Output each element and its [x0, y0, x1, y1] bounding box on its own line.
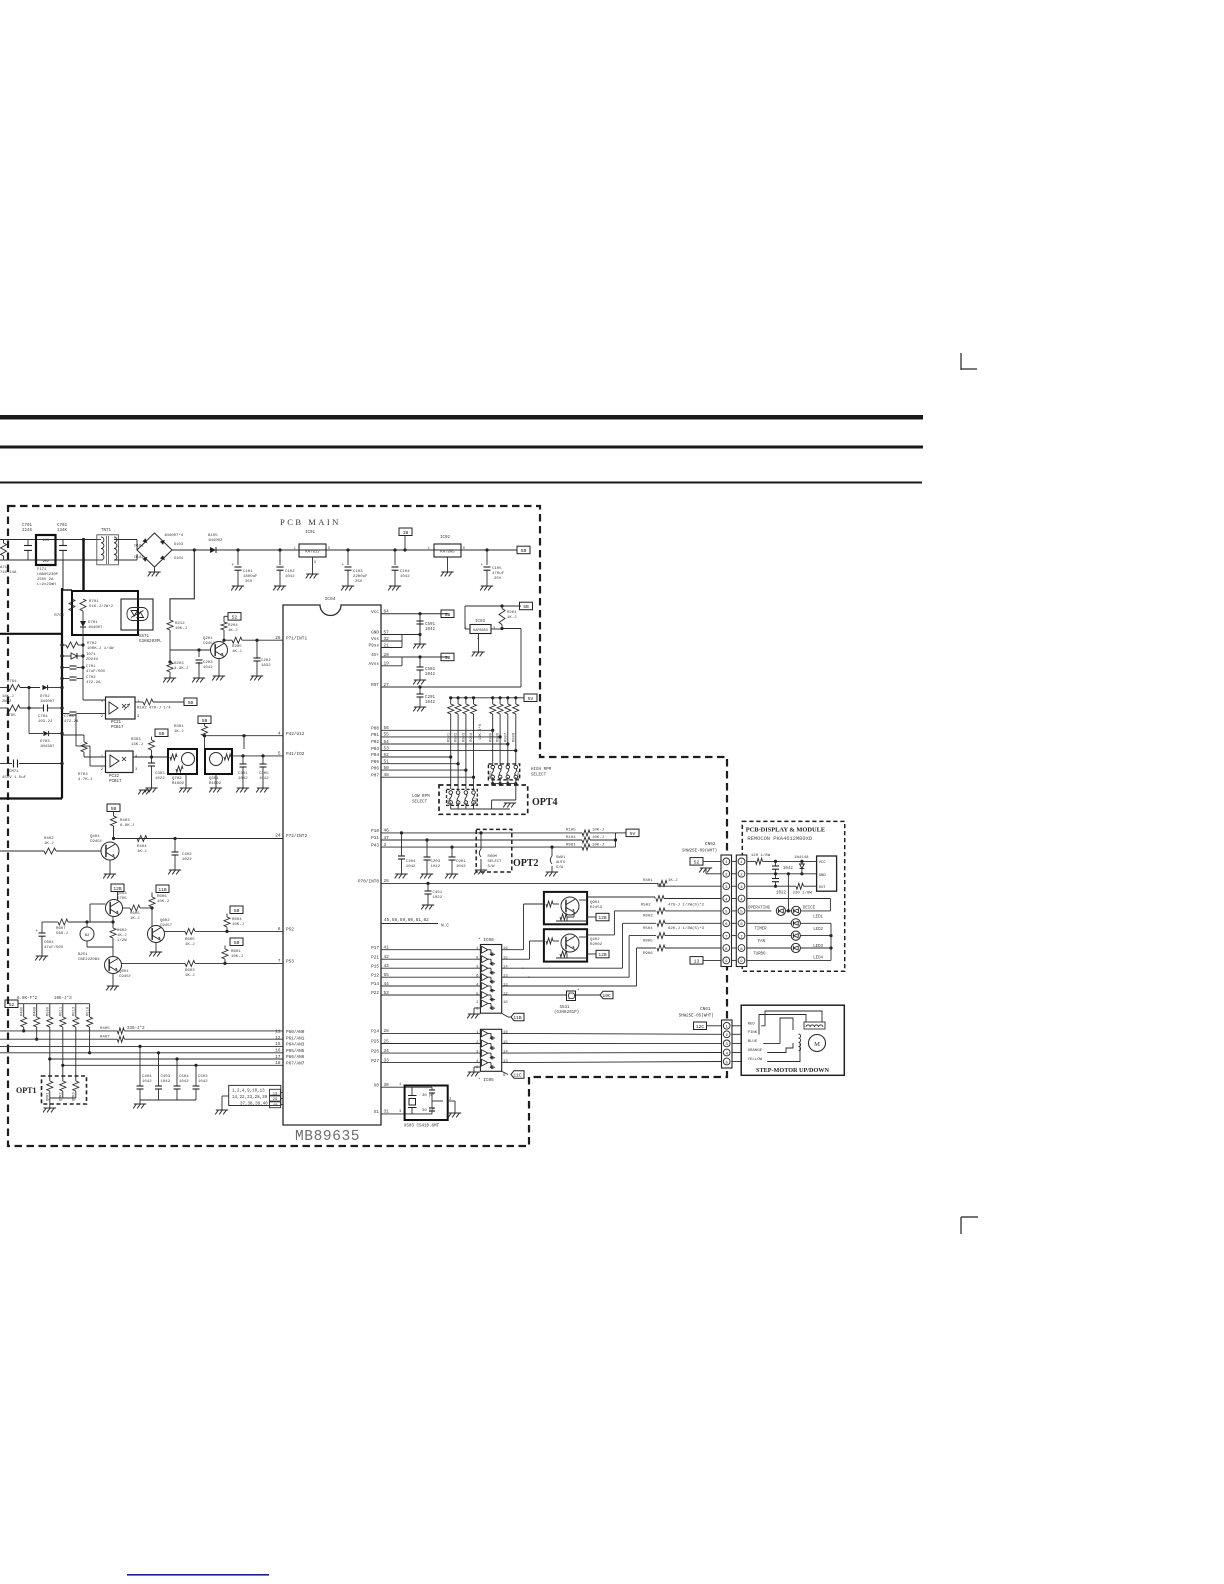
svg-text:Q201: Q201 — [203, 637, 213, 641]
svg-text:G3H8203PL: G3H8203PL — [139, 640, 162, 644]
cap C702b 472-2A — [70, 676, 77, 678]
svg-text:1832: 1832 — [261, 664, 271, 668]
R404 1K-J — [137, 836, 147, 842]
svg-text:X0: X0 — [374, 1083, 380, 1088]
svg-text:1B: 1B — [403, 530, 409, 536]
svg-text:STEP-MOTOR UP/DOWN: STEP-MOTOR UP/DOWN — [756, 1067, 829, 1074]
svg-text:Q602: Q602 — [160, 919, 170, 923]
svg-text:C945Y: C945Y — [119, 975, 132, 979]
svg-text:R605: R605 — [185, 938, 195, 942]
svg-text:HIGH RPM: HIGH RPM — [531, 768, 552, 772]
svg-text:12: 12 — [503, 993, 508, 997]
svg-text:14: 14 — [503, 966, 508, 970]
svg-text:5B: 5B — [445, 655, 451, 661]
svg-text:L: L — [428, 547, 430, 551]
cap C102 — [279, 550, 281, 565]
svg-text:D103: D103 — [174, 543, 184, 547]
column drops to port rows — [492, 714, 494, 766]
svg-text:2: 2 — [476, 1041, 479, 1045]
HIGH RPM inner dashed box — [488, 764, 519, 780]
svg-text:15: 15 — [503, 957, 508, 961]
crystal box — [405, 1086, 448, 1121]
svg-text:R605: R605 — [130, 912, 140, 916]
svg-text:A71: A71 — [0, 566, 8, 570]
svg-text:450V 1.5uF: 450V 1.5uF — [2, 776, 27, 780]
svg-text:R511: R511 — [60, 1006, 64, 1016]
tag to CN52 pin9 — [690, 957, 703, 965]
svg-text:C503: C503 — [198, 1075, 208, 1079]
svg-text:(G3H8201P): (G3H8201P) — [554, 1010, 579, 1015]
svg-text:R488: R488 — [34, 1006, 38, 1016]
svg-text:52: 52 — [9, 1002, 15, 1008]
R606 10K-J — [156, 885, 169, 893]
svg-text:1N4007: 1N4007 — [40, 700, 55, 704]
svg-text:52: 52 — [694, 859, 700, 865]
svg-text:5B: 5B — [445, 612, 451, 618]
svg-text:P70/INT0: P70/INT0 — [358, 880, 379, 885]
svg-text:X503 CS410.6MT: X503 CS410.6MT — [404, 1125, 440, 1129]
svg-text:3.3K-J: 3.3K-J — [174, 667, 188, 671]
cap C704 — [40, 707, 43, 709]
svg-text:1042: 1042 — [400, 575, 410, 579]
svg-text:5B: 5B — [159, 731, 165, 737]
svg-text:SELECT: SELECT — [412, 801, 428, 805]
driver module Q901 — [544, 892, 587, 924]
B251 varistor circle — [80, 927, 94, 941]
svg-text:1042: 1042 — [425, 628, 436, 632]
svg-text:1: 1 — [476, 1031, 479, 1035]
svg-text:1042: 1042 — [198, 1080, 208, 1084]
svg-text:D104: D104 — [174, 557, 184, 561]
cap C203b — [426, 840, 428, 857]
svg-text:C901: C901 — [456, 860, 466, 864]
svg-text:S/W: S/W — [556, 865, 564, 870]
svg-text:R407: R407 — [100, 1036, 110, 1040]
svg-text:1042: 1042 — [238, 777, 248, 781]
svg-text:B251: B251 — [78, 953, 88, 957]
svg-text:C203: C203 — [203, 661, 213, 665]
P10 wire — [381, 832, 582, 834]
svg-text:Q401: Q401 — [90, 835, 100, 839]
svg-text:D701: D701 — [88, 621, 98, 625]
svg-text:OPT2: OPT2 — [513, 858, 539, 869]
svg-text:OPT4: OPT4 — [532, 797, 558, 808]
top-right corner mark — [960, 353, 962, 370]
svg-text:P02: P02 — [371, 740, 379, 745]
svg-text:3: 3 — [137, 715, 140, 719]
R403 6.8K-J — [111, 816, 117, 826]
Q201 emitter ground — [218, 659, 220, 677]
svg-text:100K-J 1/4W: 100K-J 1/4W — [87, 646, 114, 651]
svg-text:4: 4 — [101, 700, 104, 704]
svg-text:560-J: 560-J — [56, 932, 68, 936]
svg-text:16: 16 — [503, 947, 508, 951]
svg-text:P04: P04 — [371, 753, 379, 758]
svg-text:SW91: SW91 — [556, 856, 566, 860]
svg-text:P64/AN3: P64/AN3 — [286, 1043, 305, 1048]
grounds under opto row — [139, 789, 151, 791]
cap C305 — [262, 756, 264, 764]
tag 52 — [5, 1000, 18, 1008]
svg-text:VCC: VCC — [819, 861, 827, 865]
svg-text:R961: R961 — [566, 843, 576, 847]
svg-text:Q603: Q603 — [117, 892, 127, 896]
svg-text:620-J 1/3W(S)*3: 620-J 1/3W(S)*3 — [668, 926, 705, 931]
vertical from pin2 to LED1 junction — [787, 874, 789, 911]
svg-text:PCB-DISPLAY & MODULE: PCB-DISPLAY & MODULE — [746, 827, 825, 834]
svg-text:Q702: Q702 — [172, 777, 182, 781]
AVcc cluster — [381, 656, 402, 658]
svg-text:3: 3 — [476, 1051, 479, 1055]
svg-text:* IC06: * IC06 — [478, 938, 494, 943]
svg-text:10K-J: 10K-J — [231, 955, 243, 959]
svg-text:OPERATING: OPERATING — [748, 907, 771, 911]
OPT2 dashed box — [476, 829, 512, 872]
svg-text:S/W: S/W — [488, 864, 496, 869]
svg-text:250V 2A: 250V 2A — [37, 578, 54, 582]
svg-text:Q901: Q901 — [590, 901, 600, 905]
svg-text:R1002: R1002 — [172, 782, 185, 786]
svg-text:24: 24 — [275, 834, 281, 839]
svg-text:SS71: SS71 — [139, 635, 150, 639]
svg-text:10: 10 — [503, 1001, 508, 1005]
cap C501 — [419, 614, 421, 621]
svg-text:4: 4 — [476, 1060, 479, 1064]
tag 5B above R403 — [107, 804, 120, 812]
svg-text:10K-J*8: 10K-J*8 — [478, 723, 483, 740]
P70 wire R401 — [381, 882, 658, 884]
tag to CN61 pin1 — [694, 1022, 707, 1030]
R212 10K-J — [167, 620, 173, 630]
motor coil horizontal — [806, 1025, 823, 1027]
svg-text:P60/AN0: P60/AN0 — [286, 1030, 305, 1035]
IC U04 MB89635 body — [283, 605, 381, 1125]
svg-text:GND: GND — [371, 631, 379, 636]
svg-text:P12: P12 — [371, 973, 379, 978]
svg-text:C9457: C9457 — [160, 924, 173, 928]
svg-text:RED: RED — [748, 1022, 756, 1026]
resistor R702 — [66, 642, 78, 648]
svg-text:X1: X1 — [374, 1110, 380, 1115]
svg-text:CM71: CM71 — [9, 770, 19, 774]
svg-text:3: 3 — [476, 966, 479, 970]
svg-text:R486: R486 — [21, 1006, 25, 1016]
svg-text:+: + — [481, 563, 484, 568]
R407 — [117, 1036, 124, 1042]
svg-text:5B: 5B — [523, 604, 529, 610]
svg-text:R509: R509 — [47, 1006, 51, 1016]
svg-text:IC02: IC02 — [440, 536, 451, 540]
svg-text:C704: C704 — [38, 715, 48, 719]
svg-text:45,58,59,60,61,62: 45,58,59,60,61,62 — [384, 918, 429, 923]
svg-text:*: * — [577, 988, 580, 994]
svg-text:5V: 5V — [528, 696, 534, 702]
svg-text:1N4387: 1N4387 — [40, 745, 55, 749]
motor M circle — [809, 1035, 826, 1052]
svg-text:18K-J: 18K-J — [2, 695, 14, 699]
svg-text:C402: C402 — [182, 853, 192, 857]
svg-text:L=2x23mH: L=2x23mH — [37, 583, 56, 587]
svg-text:R105: R105 — [566, 829, 576, 833]
svg-text:37,38,39,40: 37,38,39,40 — [240, 1103, 268, 1107]
pin4 rail to LED1 anode bus — [747, 898, 831, 900]
cap C201 — [419, 687, 421, 694]
IC06 outputs — [502, 949, 524, 951]
svg-text:14,22,23,28,39: 14,22,23,28,39 — [232, 1096, 268, 1100]
SS71 inner triac box — [121, 599, 153, 630]
OPT1 dashed box — [42, 1076, 87, 1104]
svg-text:10K-J: 10K-J — [175, 627, 187, 631]
svg-text:M: M — [814, 1041, 820, 1048]
svg-text:5B: 5B — [234, 940, 240, 946]
bold mains bus — [61, 588, 63, 799]
svg-text:C101: C101 — [243, 570, 253, 574]
svg-text:LOW RPM: LOW RPM — [412, 795, 430, 799]
P43 wire — [381, 846, 582, 848]
LB01-LB04 plugs — [447, 789, 478, 805]
svg-text:10K-J: 10K-J — [592, 829, 604, 833]
svg-text:1042: 1042 — [783, 867, 794, 871]
Q201 transistor — [211, 642, 228, 659]
motor coil vertical — [799, 1034, 801, 1051]
bold mains feeder — [82, 540, 84, 592]
svg-text:P05: P05 — [371, 760, 379, 765]
tag 12B above Q603 — [111, 884, 124, 892]
resistor R785 — [8, 705, 20, 711]
IC05 pin9 tag — [502, 1071, 508, 1074]
filter caps C404 C403 C504 C503 — [138, 1045, 141, 1048]
svg-text:D: D — [328, 547, 330, 551]
svg-text:S531: S531 — [560, 1006, 571, 1010]
svg-text:SHW25E-05(WHT): SHW25E-05(WHT) — [679, 1014, 714, 1019]
svg-text:6.8K-F*2: 6.8K-F*2 — [17, 996, 38, 1001]
svg-text:12B: 12B — [598, 915, 607, 921]
svg-text:TIMER: TIMER — [754, 928, 767, 932]
Q401 emitter ground — [109, 860, 111, 874]
svg-text:TN71: TN71 — [101, 529, 112, 533]
svg-text:R2002: R2002 — [590, 943, 603, 947]
svg-text:B105: B105 — [208, 534, 218, 538]
svg-text:P01: P01 — [371, 733, 379, 738]
fuse F171 box — [36, 535, 56, 565]
R605 base resistor — [123, 907, 131, 909]
PCB MAIN dashed border — [8, 506, 727, 1146]
pin6 wire with R605b — [165, 930, 186, 932]
STEP-MOTOR box — [741, 1005, 844, 1075]
svg-text:5B: 5B — [202, 718, 208, 724]
svg-text:Vcc: Vcc — [371, 610, 379, 615]
svg-text:C9451: C9451 — [203, 642, 216, 646]
svg-text:LED2: LED2 — [813, 928, 823, 932]
bank top bus — [18, 1003, 90, 1005]
display module dashed box — [742, 821, 844, 971]
long feeds from IC06 rows — [522, 967, 623, 969]
svg-text:D702: D702 — [40, 695, 50, 699]
svg-text:1/2W: 1/2W — [117, 938, 127, 943]
svg-text:R601: R601 — [231, 950, 241, 954]
gnd to CN52 pin2 — [706, 873, 721, 875]
svg-text:1K-J: 1K-J — [185, 943, 195, 947]
C203 cap — [198, 662, 200, 666]
CN61 to motor box stubs — [732, 1025, 741, 1027]
svg-text:2: 2 — [101, 715, 104, 719]
Q601 transistor — [105, 957, 122, 974]
svg-text:1: 1 — [476, 947, 479, 951]
svg-text:1022: 1022 — [182, 858, 192, 862]
svg-text:13: 13 — [273, 1092, 278, 1096]
IC03 gnd pin2 — [478, 634, 480, 653]
svg-text:10C: 10C — [602, 993, 611, 999]
svg-text:D101: D101 — [134, 545, 144, 549]
svg-text:I071: I071 — [86, 653, 96, 657]
R205 1K-J — [224, 639, 232, 641]
svg-text:+: + — [232, 563, 235, 568]
svg-text:C701: C701 — [22, 524, 33, 528]
svg-text:C305: C305 — [259, 772, 269, 776]
Q401 transistor — [101, 842, 119, 860]
svg-text:KA7805: KA7805 — [440, 551, 455, 555]
svg-text:P06: P06 — [371, 766, 379, 771]
svg-text:9: 9 — [476, 957, 479, 961]
svg-text:R905: R905 — [643, 940, 653, 944]
NC pin box rows 13/29/40 — [281, 1092, 283, 1094]
Q901 output to R502 pin4 — [587, 896, 655, 898]
svg-text:KA7812: KA7812 — [305, 551, 320, 555]
svg-text:11B: 11B — [513, 1015, 522, 1021]
svg-text:C501: C501 — [425, 623, 436, 627]
driver module Q402 — [544, 929, 587, 961]
Q402 output up to R903 pin5 — [587, 934, 614, 936]
svg-text:A705: A705 — [117, 897, 127, 901]
HB01-HB04 plugs — [491, 765, 495, 769]
svg-text:R701: R701 — [89, 600, 99, 604]
thermistor at page edge — [1, 543, 7, 556]
svg-text:R607: R607 — [56, 927, 66, 931]
svg-text:6: 6 — [476, 975, 479, 979]
svg-text:LED1: LED1 — [813, 916, 823, 920]
Q603 transistor — [106, 900, 123, 917]
svg-text:C202: C202 — [261, 659, 271, 663]
svg-text:12: 12 — [275, 1036, 281, 1041]
svg-text:R602: R602 — [117, 929, 127, 933]
resistor bank R486-R518 — [23, 1004, 25, 1017]
svg-text:N.C: N.C — [441, 924, 449, 929]
pin7 wire with R603 — [122, 962, 186, 964]
svg-text:470uF: 470uF — [492, 572, 505, 576]
svg-text:1N4148: 1N4148 — [794, 856, 809, 860]
cap C502 — [419, 657, 421, 667]
R901-R908 top bus — [451, 697, 524, 699]
svg-text:MB89635: MB89635 — [295, 1129, 360, 1145]
room select switch — [480, 833, 482, 849]
svg-text:Q301: Q301 — [209, 777, 219, 781]
R102 470-J — [135, 701, 143, 703]
svg-text:103-2J: 103-2J — [38, 720, 52, 724]
svg-text:1042: 1042 — [259, 777, 269, 781]
svg-text:P26: P26 — [371, 1049, 379, 1054]
svg-text:12C: 12C — [696, 1024, 705, 1030]
svg-text:SELECT: SELECT — [531, 774, 547, 778]
svg-text:1042: 1042 — [179, 1080, 189, 1084]
svg-text:P43: P43 — [371, 843, 379, 848]
C202 cap — [256, 640, 258, 658]
X0/X1 wires — [381, 1086, 412, 1088]
svg-text:P42/U12: P42/U12 — [286, 732, 305, 737]
svg-text:OPT1: OPT1 — [16, 1086, 36, 1095]
svg-text:P14: P14 — [371, 982, 379, 987]
svg-text:R205: R205 — [232, 645, 242, 649]
svg-text:11B: 11B — [158, 887, 167, 893]
svg-text:5: 5 — [476, 993, 479, 997]
blue footer line — [127, 1574, 269, 1576]
svg-text:1K-J: 1K-J — [228, 629, 238, 633]
svg-text:BLUE: BLUE — [748, 1040, 758, 1044]
LB bottom bus — [450, 803, 452, 810]
svg-text:C105: C105 — [492, 567, 502, 571]
svg-text:R706: R706 — [54, 614, 64, 618]
R504 row pin6 from IC06 — [623, 922, 657, 924]
svg-text:4V+: 4V+ — [371, 653, 379, 658]
svg-text:HB04: HB04 — [517, 771, 521, 779]
cap C105 electrolytic — [486, 550, 488, 565]
svg-text:C201: C201 — [425, 696, 436, 700]
Q602 transistor — [148, 926, 165, 943]
svg-text:C702: C702 — [86, 676, 96, 680]
svg-text:10K-J: 10K-J — [592, 836, 604, 840]
module pin2 rail — [747, 873, 817, 875]
crystal element — [411, 1087, 413, 1095]
svg-text:C601: C601 — [44, 941, 54, 945]
cap C401 — [427, 883, 429, 891]
svg-text:1K-J: 1K-J — [507, 616, 517, 620]
resistor R701 pair — [69, 599, 75, 611]
Vcc pin64 net — [381, 613, 448, 615]
svg-text:AVss: AVss — [368, 662, 379, 667]
svg-text:11: 11 — [275, 1030, 281, 1035]
svg-text:P41/IO2: P41/IO2 — [286, 752, 305, 757]
svg-text:PC32: PC32 — [109, 775, 120, 779]
svg-text:IC03: IC03 — [475, 620, 486, 624]
svg-text:KAFB303: KAFB303 — [473, 629, 488, 633]
svg-text:30 pF: 30 pF — [422, 1109, 435, 1113]
svg-text:IC01: IC01 — [305, 531, 316, 535]
svg-text:R301: R301 — [174, 725, 184, 729]
svg-text:YELLOW: YELLOW — [748, 1058, 763, 1062]
svg-text:R212: R212 — [175, 622, 185, 626]
svg-text:2: 2 — [101, 768, 104, 772]
HB bottom bus to ground — [492, 777, 494, 784]
svg-text:C504: C504 — [179, 1075, 189, 1079]
svg-text:FAN: FAN — [758, 940, 766, 944]
svg-text:10K-J: 10K-J — [232, 923, 244, 927]
bottom-right corner mark — [961, 1216, 978, 1218]
svg-text:PINK: PINK — [748, 1031, 758, 1035]
thermal switch S531 — [567, 991, 576, 1001]
svg-text:472-2A: 472-2A — [86, 681, 101, 685]
svg-text:D: D — [463, 547, 465, 551]
GND cluster wires — [381, 634, 402, 636]
svg-text:Vss: Vss — [371, 637, 379, 642]
pin5 wire P41 — [232, 755, 283, 757]
svg-text:51K-J/2W*2: 51K-J/2W*2 — [89, 604, 114, 609]
svg-text:R201: R201 — [507, 611, 517, 615]
svg-text:R204: R204 — [228, 624, 238, 628]
svg-text:PCB MAIN: PCB MAIN — [280, 517, 341, 527]
svg-text:1042: 1042 — [142, 1080, 152, 1084]
svg-text:C403: C403 — [161, 1075, 171, 1079]
svg-text:R401: R401 — [643, 879, 653, 883]
svg-text:120 1/8W: 120 1/8W — [751, 853, 771, 858]
